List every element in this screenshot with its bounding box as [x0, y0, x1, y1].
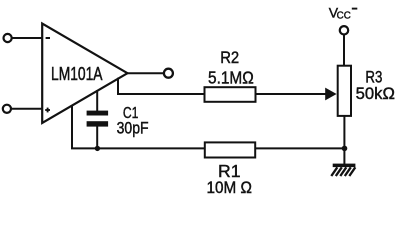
- wire feedback from op-amp to R1 (left drop and bottom run): [72, 105, 205, 148]
- potentiometer R3 body: [338, 66, 351, 116]
- svg-text:50kΩ: 50kΩ: [356, 84, 395, 103]
- resistor R2: [205, 87, 256, 102]
- terminal: output: [164, 69, 173, 78]
- wire R2 to wiper arrow: [256, 93, 328, 95]
- op-amp U1 triangle: [42, 24, 127, 124]
- junction dot at C1 / bottom wire: [95, 146, 100, 151]
- wire non-inverting input to op-amp: [11, 108, 42, 110]
- svg-text:R2: R2: [220, 48, 239, 67]
- wiper arrow into R3: [325, 88, 336, 101]
- pin marker: minus input: [46, 37, 50, 39]
- terminal: VCC: [340, 26, 348, 34]
- ground: [331, 164, 355, 176]
- svg-text:30pF: 30pF: [117, 120, 149, 138]
- pin marker: plus input: [45, 108, 50, 113]
- wire R3 bottom to ground: [343, 116, 345, 164]
- svg-text:10M Ω: 10M Ω: [207, 178, 253, 196]
- wire VCC to R3: [343, 35, 345, 66]
- wire output: [127, 72, 164, 74]
- svg-text:5.1MΩ: 5.1MΩ: [208, 67, 254, 87]
- terminal: inverting input: [4, 34, 12, 42]
- label VCC-: [329, 4, 358, 21]
- terminal: non-inverting input: [3, 105, 11, 113]
- svg-text:CC: CC: [337, 11, 351, 22]
- capacitor C1: [87, 90, 109, 148]
- svg-text:LM101A: LM101A: [51, 64, 103, 84]
- wire inverting input to op-amp: [12, 37, 43, 39]
- resistor R1: [205, 142, 255, 157]
- wire feedback from output to R2: [118, 78, 205, 94]
- wire R1 to ground junction: [255, 147, 344, 149]
- junction dot at R3 / R1 / ground: [342, 146, 348, 152]
